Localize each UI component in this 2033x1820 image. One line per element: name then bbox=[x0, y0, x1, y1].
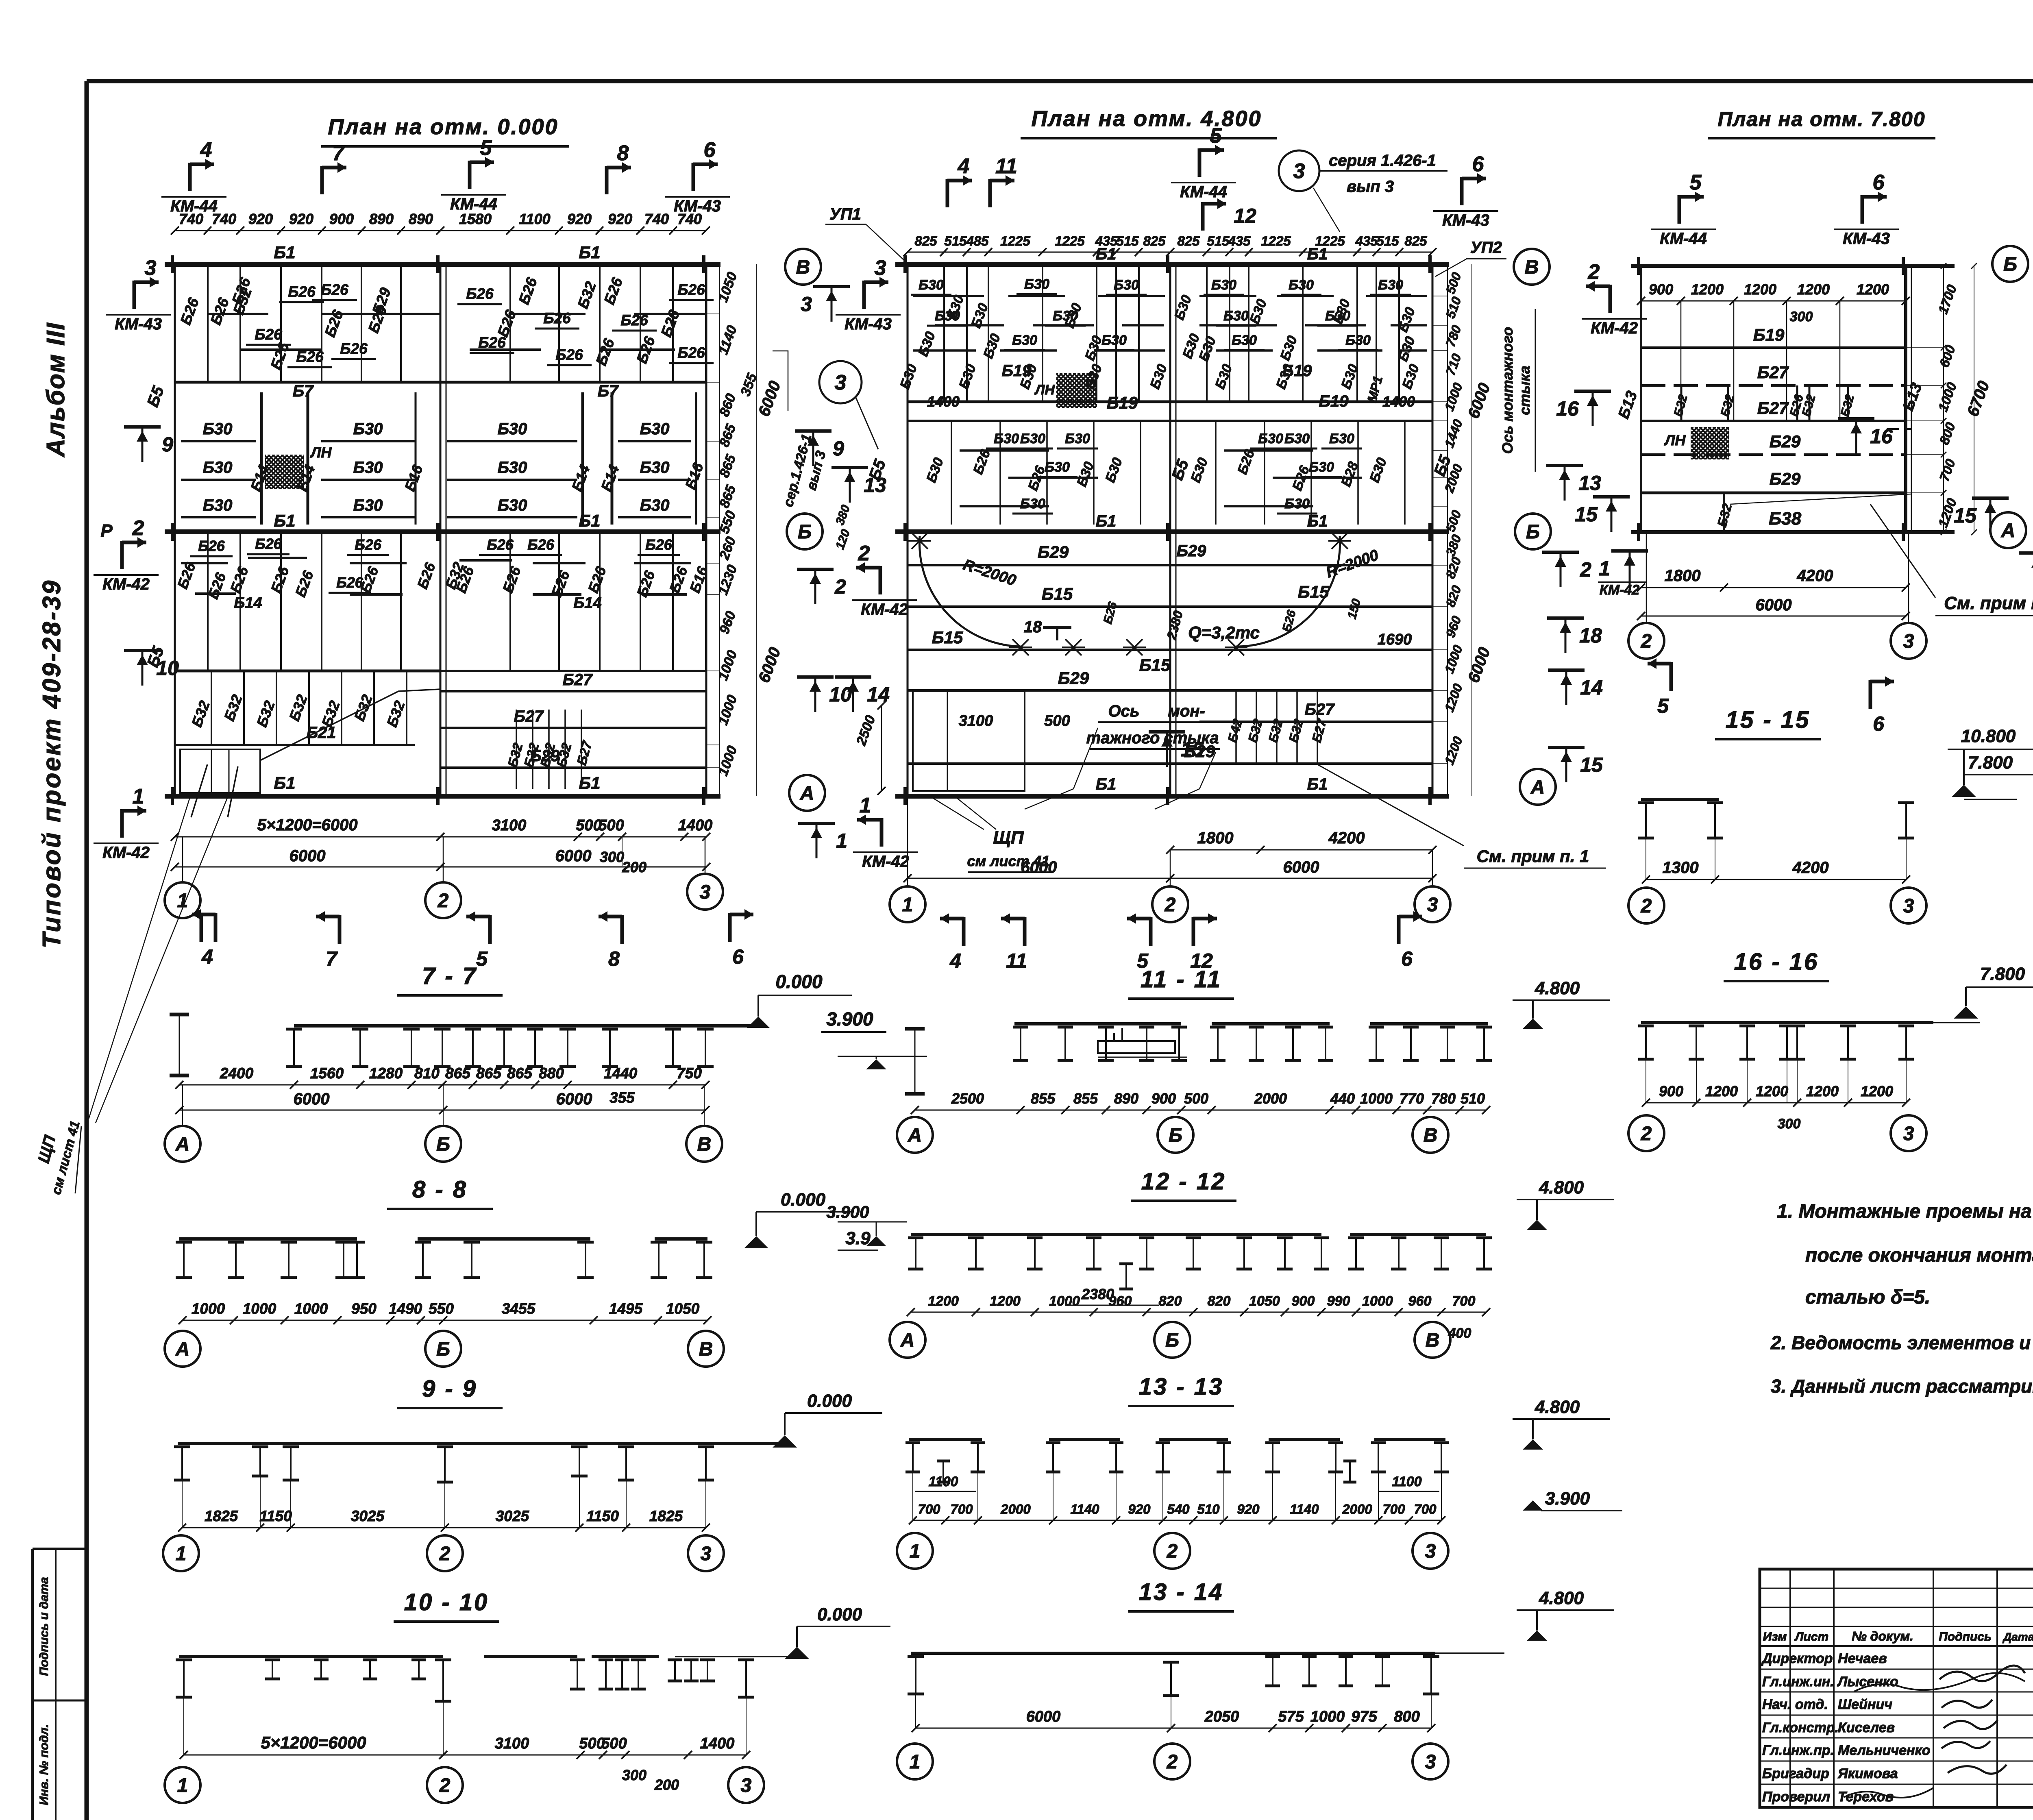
svg-text:13 - 14: 13 - 14 bbox=[1139, 1579, 1224, 1605]
section 8-8 beams bbox=[179, 1237, 357, 1241]
section 10-10 dims bbox=[184, 1755, 443, 1756]
plan2 main verticals bbox=[907, 264, 909, 796]
plan3 top dims bbox=[1641, 300, 1906, 302]
svg-text:13: 13 bbox=[1578, 472, 1601, 494]
svg-text:Б26: Б26 bbox=[255, 326, 282, 343]
svg-text:1000: 1000 bbox=[1049, 1293, 1080, 1309]
svg-text:Якимова: Якимова bbox=[1837, 1766, 1898, 1781]
svg-text:Б30: Б30 bbox=[1284, 496, 1310, 512]
svg-text:12: 12 bbox=[1234, 205, 1256, 227]
svg-text:Б: Б bbox=[1526, 521, 1540, 543]
svg-text:3: 3 bbox=[1425, 1541, 1436, 1562]
svg-text:3: 3 bbox=[700, 882, 711, 903]
svg-text:1050: 1050 bbox=[666, 1300, 700, 1317]
svg-text:11 - 11: 11 - 11 bbox=[1141, 966, 1222, 993]
svg-text:Б26: Б26 bbox=[478, 334, 506, 351]
svg-text:1: 1 bbox=[910, 1541, 921, 1562]
plan3 Б32 joists bbox=[1680, 385, 1683, 421]
svg-text:2400: 2400 bbox=[220, 1065, 254, 1082]
svg-text:после окончания монтажа заш: после окончания монтажа зашить рифленой bbox=[1805, 1245, 2033, 1266]
svg-text:Б1: Б1 bbox=[274, 243, 295, 262]
svg-text:Б19: Б19 bbox=[1107, 393, 1138, 412]
svg-text:Лист: Лист bbox=[1794, 1630, 1828, 1644]
reference bubble 3 with leader bbox=[819, 361, 862, 403]
svg-text:ЛН: ЛН bbox=[310, 444, 332, 461]
svg-text:Б29: Б29 bbox=[1058, 668, 1089, 688]
svg-text:2: 2 bbox=[1165, 894, 1176, 916]
sheet frame top border bbox=[87, 79, 2033, 83]
svg-text:КМ-42: КМ-42 bbox=[1591, 319, 1638, 337]
svg-text:920: 920 bbox=[248, 211, 273, 227]
section 9-9 joists bbox=[174, 1446, 190, 1448]
plan3 flags around bbox=[1609, 285, 1612, 313]
svg-text:7: 7 bbox=[333, 142, 345, 165]
svg-text:7: 7 bbox=[326, 947, 338, 970]
svg-text:Б: Б bbox=[798, 521, 812, 543]
svg-text:300: 300 bbox=[1790, 309, 1813, 324]
svg-text:Б: Б bbox=[436, 1134, 450, 1155]
svg-text:Альбом III: Альбом III bbox=[42, 322, 70, 457]
svg-text:Б14: Б14 bbox=[234, 594, 262, 612]
svg-text:1200: 1200 bbox=[990, 1293, 1021, 1309]
svg-text:15 - 15: 15 - 15 bbox=[1726, 707, 1811, 733]
plan1 middle strip Б30 rows bbox=[181, 440, 256, 442]
svg-text:Ось: Ось bbox=[1108, 702, 1139, 720]
svg-text:Б27: Б27 bbox=[1757, 363, 1789, 382]
svg-text:Б27: Б27 bbox=[514, 708, 544, 725]
svg-text:Б14: Б14 bbox=[573, 594, 601, 612]
svg-text:Б1: Б1 bbox=[1307, 245, 1328, 263]
svg-text:920: 920 bbox=[289, 211, 313, 227]
plan2 Б19 band bbox=[908, 401, 1170, 403]
svg-text:900: 900 bbox=[1659, 1083, 1683, 1099]
plan1 upper strip beam segments bbox=[207, 313, 268, 315]
svg-text:Изм: Изм bbox=[1763, 1630, 1787, 1644]
svg-text:Б30: Б30 bbox=[919, 277, 944, 293]
plan1 left cut flags bbox=[133, 281, 136, 309]
svg-text:Б1: Б1 bbox=[1096, 245, 1117, 263]
svg-text:900: 900 bbox=[1151, 1090, 1176, 1107]
plan1 lower bay Б26 beam segments bbox=[181, 562, 228, 564]
svg-text:Q=3,2тс: Q=3,2тс bbox=[1188, 623, 1260, 642]
svg-text:6000: 6000 bbox=[1021, 858, 1057, 876]
svg-text:2: 2 bbox=[1580, 558, 1591, 581]
svg-text:Б30: Б30 bbox=[1020, 431, 1045, 446]
svg-text:1150: 1150 bbox=[586, 1508, 619, 1524]
svg-text:920: 920 bbox=[1128, 1502, 1151, 1517]
svg-text:Б26: Б26 bbox=[527, 536, 555, 553]
svg-text:4.800: 4.800 bbox=[1539, 1178, 1584, 1197]
plan1 right dim stack column bbox=[719, 264, 720, 796]
section 13-13 bay frames bbox=[909, 1438, 982, 1441]
svg-text:900: 900 bbox=[1292, 1293, 1315, 1309]
svg-text:5×1200=6000: 5×1200=6000 bbox=[261, 1733, 366, 1752]
svg-text:Б30: Б30 bbox=[1325, 308, 1350, 324]
svg-text:1400: 1400 bbox=[678, 817, 713, 834]
section 10-10 beam line bbox=[179, 1655, 443, 1658]
svg-text:Б30: Б30 bbox=[1053, 308, 1078, 324]
svg-text:3: 3 bbox=[145, 256, 157, 280]
svg-text:Б26: Б26 bbox=[321, 281, 348, 298]
svg-text:1150: 1150 bbox=[259, 1508, 292, 1524]
svg-text:4.800: 4.800 bbox=[1539, 1588, 1584, 1608]
section 13-14 bubbles bbox=[897, 1744, 933, 1779]
svg-text:Б26: Б26 bbox=[198, 538, 225, 554]
svg-text:700: 700 bbox=[1414, 1502, 1437, 1517]
svg-text:В: В bbox=[796, 257, 810, 278]
plan3 axis lines bbox=[1631, 264, 1955, 268]
plan2 right axis bubbles bbox=[1514, 249, 1550, 285]
section 12-12 joists bbox=[908, 1237, 923, 1239]
svg-text:1825: 1825 bbox=[205, 1508, 239, 1524]
svg-text:Б26: Б26 bbox=[645, 536, 673, 553]
svg-text:18: 18 bbox=[1579, 624, 1602, 647]
svg-text:3: 3 bbox=[1903, 895, 1914, 917]
svg-text:1300: 1300 bbox=[1663, 859, 1699, 877]
svg-text:6000: 6000 bbox=[556, 1090, 592, 1108]
svg-text:Б: Б bbox=[2003, 254, 2017, 275]
section 11-11 bubbles bbox=[897, 1117, 933, 1153]
svg-text:11: 11 bbox=[1006, 949, 1027, 972]
svg-text:Б30: Б30 bbox=[1211, 277, 1236, 293]
svg-text:1: 1 bbox=[910, 1751, 921, 1773]
svg-text:990: 990 bbox=[1327, 1293, 1350, 1309]
svg-text:3: 3 bbox=[835, 371, 847, 394]
svg-text:КМ-42: КМ-42 bbox=[102, 844, 150, 862]
section 9-9 beam line bbox=[178, 1442, 785, 1445]
svg-text:825: 825 bbox=[1177, 233, 1200, 248]
svg-text:1. Монтажные проемы на отм.: 1. Монтажные проемы на отм. 4.800 , 7.80… bbox=[1777, 1201, 2033, 1222]
section 9-9 dims bbox=[182, 1527, 706, 1528]
svg-text:Б21: Б21 bbox=[307, 724, 336, 742]
plan1 axis line А bbox=[165, 794, 720, 799]
svg-text:См. прим п. 1: См. прим п. 1 bbox=[1477, 847, 1589, 866]
svg-text:КМ-44: КМ-44 bbox=[170, 197, 218, 215]
section 12-12 beams bbox=[911, 1233, 1321, 1236]
svg-text:890: 890 bbox=[409, 211, 433, 227]
svg-text:920: 920 bbox=[567, 211, 592, 227]
svg-text:Б1: Б1 bbox=[579, 511, 600, 530]
plan2 top dim row bbox=[908, 252, 1432, 253]
svg-text:Типовой проект 409-28-39: Типовой проект 409-28-39 bbox=[38, 579, 66, 949]
svg-text:3: 3 bbox=[1427, 894, 1438, 916]
svg-text:Б30: Б30 bbox=[498, 459, 527, 477]
section 16-16 beam line bbox=[1641, 1021, 1933, 1024]
svg-text:2000: 2000 bbox=[1342, 1502, 1372, 1517]
svg-text:Гл.инж.ин.: Гл.инж.ин. bbox=[1762, 1674, 1834, 1689]
svg-text:В: В bbox=[1424, 1125, 1438, 1146]
svg-text:1200: 1200 bbox=[1744, 281, 1776, 298]
title block signatures scribbles bbox=[1939, 1665, 2025, 1681]
svg-text:1100: 1100 bbox=[519, 211, 550, 227]
svg-text:В: В bbox=[699, 1339, 713, 1360]
plan3 beams lower bbox=[1641, 453, 1906, 456]
svg-text:440: 440 bbox=[1330, 1090, 1355, 1107]
svg-text:825: 825 bbox=[1143, 233, 1166, 248]
plan1 top cut flags 4 7 5 8 6 bbox=[188, 163, 192, 191]
svg-text:4200: 4200 bbox=[1328, 829, 1365, 847]
svg-text:вып 3: вып 3 bbox=[1347, 178, 1394, 196]
svg-text:ЩП: ЩП bbox=[993, 828, 1024, 848]
plan2 montage loop arcs R=2000 bbox=[919, 536, 1021, 647]
svg-text:Б30: Б30 bbox=[640, 496, 670, 514]
svg-text:3.900: 3.900 bbox=[826, 1202, 869, 1221]
svg-text:Б30: Б30 bbox=[1345, 333, 1371, 348]
svg-text:1225: 1225 bbox=[1055, 233, 1085, 248]
svg-text:7.800: 7.800 bbox=[1980, 964, 2025, 984]
svg-text:7.800: 7.800 bbox=[1968, 753, 2013, 773]
plan1 heavy joists Б14/Б16 middle strip bbox=[260, 392, 263, 525]
svg-text:740: 740 bbox=[644, 211, 669, 227]
svg-text:3: 3 bbox=[1903, 1123, 1914, 1145]
plan2 см.прим leader bbox=[1317, 764, 1464, 846]
svg-text:300: 300 bbox=[600, 849, 624, 865]
svg-text:Гл.констр.: Гл.констр. bbox=[1762, 1720, 1839, 1735]
svg-text:3: 3 bbox=[1425, 1751, 1436, 1773]
svg-text:9: 9 bbox=[833, 437, 844, 460]
svg-text:Б30: Б30 bbox=[1329, 431, 1354, 446]
svg-text:А: А bbox=[2001, 520, 2016, 542]
plan1 line mid lower bbox=[175, 670, 440, 673]
plan2 bottom cut flags bbox=[962, 917, 966, 946]
svg-text:Б30: Б30 bbox=[353, 420, 383, 438]
svg-text:Б30: Б30 bbox=[1232, 333, 1257, 348]
svg-text:1800: 1800 bbox=[1665, 567, 1701, 585]
svg-text:2050: 2050 bbox=[1204, 1708, 1239, 1725]
svg-text:10.800: 10.800 bbox=[1961, 726, 2016, 746]
svg-text:Б1: Б1 bbox=[1307, 512, 1328, 530]
svg-text:КМ-42: КМ-42 bbox=[1600, 582, 1639, 598]
plan2 dense top strip verticals bbox=[907, 264, 908, 402]
section 15-15 beams bbox=[1641, 798, 1719, 801]
svg-text:0.000: 0.000 bbox=[807, 1391, 852, 1411]
svg-text:500: 500 bbox=[601, 1735, 627, 1752]
svg-text:770: 770 bbox=[1400, 1090, 1424, 1107]
svg-text:Подпись: Подпись bbox=[1939, 1630, 1992, 1644]
svg-text:865: 865 bbox=[507, 1065, 533, 1082]
svg-text:Б30: Б30 bbox=[1045, 459, 1070, 475]
svg-text:2: 2 bbox=[1641, 895, 1652, 917]
svg-text:1490: 1490 bbox=[389, 1300, 422, 1317]
svg-text:15: 15 bbox=[1954, 504, 1977, 527]
svg-text:Б27: Б27 bbox=[563, 671, 593, 689]
section 12-12 bubbles bbox=[890, 1322, 925, 1358]
svg-text:1400: 1400 bbox=[927, 393, 960, 410]
svg-text:2: 2 bbox=[1641, 631, 1652, 652]
svg-text:0.000: 0.000 bbox=[817, 1604, 862, 1624]
section 15-15 dims bbox=[1646, 879, 1906, 880]
svg-text:3: 3 bbox=[1293, 159, 1305, 183]
plan2 lower small joists column bbox=[1235, 690, 1237, 764]
svg-text:10 - 10: 10 - 10 bbox=[404, 1589, 489, 1615]
svg-text:ЛН: ЛН bbox=[1664, 432, 1686, 448]
svg-text:1800: 1800 bbox=[1197, 829, 1234, 847]
svg-text:510: 510 bbox=[1461, 1090, 1485, 1107]
svg-text:Б1: Б1 bbox=[579, 773, 600, 792]
plan2 star junction marks bbox=[908, 533, 931, 549]
svg-text:515: 515 bbox=[944, 233, 967, 248]
svg-text:5×1200=6000: 5×1200=6000 bbox=[257, 816, 358, 834]
svg-text:Б30: Б30 bbox=[640, 459, 670, 477]
plan1 leader from opening bbox=[191, 764, 207, 817]
svg-text:Б: Б bbox=[1165, 1330, 1179, 1351]
svg-text:435: 435 bbox=[1228, 233, 1251, 248]
svg-text:КМ-42: КМ-42 bbox=[861, 601, 908, 618]
plan3 beams bbox=[1641, 346, 1906, 349]
plan2 serie bubble annotation bbox=[1279, 150, 1319, 191]
plan3 right dim stack bbox=[1943, 266, 1944, 532]
svg-text:Б29: Б29 bbox=[1038, 542, 1069, 562]
svg-text:700: 700 bbox=[918, 1502, 940, 1517]
section 13-14 beam line bbox=[911, 1652, 1435, 1655]
svg-text:ЛН: ЛН bbox=[1034, 382, 1055, 398]
section 11-11 crane symbol bbox=[1098, 1041, 1175, 1053]
svg-text:Б26: Б26 bbox=[255, 536, 282, 552]
svg-text:Б19: Б19 bbox=[1282, 362, 1313, 380]
plan3 bottom dims bbox=[1641, 587, 1906, 588]
svg-text:Б1: Б1 bbox=[1096, 775, 1117, 793]
svg-text:6000: 6000 bbox=[555, 847, 592, 865]
svg-text:А: А bbox=[800, 783, 814, 804]
svg-text:3025: 3025 bbox=[351, 1508, 385, 1524]
svg-text:4: 4 bbox=[201, 945, 213, 968]
plan3 inner verticals bbox=[1680, 301, 1682, 421]
svg-text:КМ-44: КМ-44 bbox=[1180, 183, 1227, 201]
svg-text:В: В bbox=[1525, 257, 1539, 278]
svg-text:1: 1 bbox=[1599, 557, 1610, 580]
svg-text:4200: 4200 bbox=[1792, 859, 1829, 877]
section 16-16 bubbles bbox=[1628, 1115, 1664, 1151]
svg-text:1050: 1050 bbox=[1249, 1293, 1280, 1309]
svg-text:Б26: Б26 bbox=[555, 346, 583, 363]
svg-text:Мельниченко: Мельниченко bbox=[1838, 1743, 1931, 1758]
svg-text:Б19: Б19 bbox=[1002, 362, 1032, 380]
svg-text:865: 865 bbox=[445, 1065, 471, 1082]
svg-text:5: 5 bbox=[1657, 694, 1669, 717]
svg-text:515: 515 bbox=[1207, 233, 1230, 248]
svg-text:6000: 6000 bbox=[1283, 858, 1319, 876]
svg-text:стыка: стыка bbox=[1516, 366, 1533, 415]
svg-text:Б26: Б26 bbox=[296, 348, 324, 365]
svg-text:700: 700 bbox=[1382, 1502, 1405, 1517]
svg-text:1400: 1400 bbox=[1382, 393, 1415, 410]
svg-text:3. Данный лист рассматривать: 3. Данный лист рассматривать совместно с… bbox=[1771, 1376, 2033, 1397]
svg-text:13 - 13: 13 - 13 bbox=[1139, 1374, 1224, 1400]
svg-text:Гл.инж.пр.: Гл.инж.пр. bbox=[1762, 1743, 1834, 1758]
plan3 axis bubbles bbox=[1992, 246, 2028, 282]
svg-text:5: 5 bbox=[476, 947, 488, 970]
plan2 top strip beams 3 rows bbox=[913, 295, 984, 297]
svg-text:А: А bbox=[175, 1339, 190, 1360]
svg-text:Б30: Б30 bbox=[994, 431, 1019, 446]
plan1 vertical joists upper strip bbox=[174, 264, 176, 382]
flags between plan1 and plan2 bbox=[813, 285, 850, 288]
svg-text:15: 15 bbox=[1181, 738, 1204, 761]
svg-text:Б27: Б27 bbox=[1757, 398, 1789, 418]
section 13-14 dims bbox=[916, 1728, 1431, 1729]
svg-text:Б15: Б15 bbox=[1139, 655, 1171, 675]
svg-text:1200: 1200 bbox=[1756, 1083, 1788, 1099]
title block top small rows bbox=[1760, 1588, 2033, 1589]
svg-text:Б30: Б30 bbox=[1223, 308, 1249, 324]
svg-text:План на отм. 7.800: План на отм. 7.800 bbox=[1717, 108, 1925, 131]
plan2 lower bay horizontal beams bbox=[908, 564, 1432, 566]
svg-text:485: 485 bbox=[966, 233, 989, 248]
svg-text:Б26: Б26 bbox=[677, 281, 705, 298]
svg-text:1690: 1690 bbox=[1378, 631, 1412, 648]
svg-text:Нечаев: Нечаев bbox=[1838, 1651, 1887, 1666]
svg-text:880: 880 bbox=[539, 1065, 564, 1082]
svg-text:6: 6 bbox=[1472, 152, 1484, 176]
svg-text:8 - 8: 8 - 8 bbox=[412, 1176, 468, 1203]
svg-text:890: 890 bbox=[1114, 1090, 1138, 1107]
section 13-13 dims bbox=[913, 1520, 1441, 1521]
svg-text:8: 8 bbox=[608, 947, 620, 970]
svg-text:Б30: Б30 bbox=[1258, 431, 1283, 446]
svg-text:0.000: 0.000 bbox=[781, 1190, 826, 1210]
svg-text:Б30: Б30 bbox=[640, 420, 670, 438]
plan1 small verticals right lower bbox=[516, 710, 517, 789]
svg-text:1000: 1000 bbox=[1362, 1293, 1393, 1309]
svg-text:1100: 1100 bbox=[928, 1474, 958, 1489]
plan2 axis lines В Б А bbox=[895, 262, 1449, 267]
svg-text:Б26: Б26 bbox=[620, 312, 648, 329]
svg-text:1: 1 bbox=[836, 829, 847, 852]
svg-text:Киселев: Киселев bbox=[1838, 1720, 1895, 1735]
svg-text:1200: 1200 bbox=[1857, 281, 1889, 298]
svg-text:КМ-43: КМ-43 bbox=[115, 315, 162, 333]
section 16-16 joists bbox=[1638, 1025, 1654, 1028]
svg-text:Б19: Б19 bbox=[1753, 325, 1785, 344]
plan1 bottom cut flags bbox=[214, 913, 218, 942]
svg-text:6000: 6000 bbox=[1026, 1708, 1061, 1725]
plan1 right axis bubbles В Б А bbox=[785, 249, 821, 285]
svg-text:14: 14 bbox=[867, 683, 890, 706]
svg-text:А: А bbox=[908, 1125, 922, 1146]
svg-text:4200: 4200 bbox=[1797, 567, 1833, 585]
svg-text:КМ-43: КМ-43 bbox=[674, 197, 721, 215]
title block staff rows bbox=[1760, 1669, 2033, 1670]
section 10-10 joists bbox=[176, 1659, 192, 1661]
svg-text:А: А bbox=[1530, 777, 1545, 798]
svg-text:575: 575 bbox=[1278, 1708, 1304, 1725]
svg-text:Б30: Б30 bbox=[203, 496, 233, 514]
svg-text:Б1: Б1 bbox=[1096, 512, 1117, 530]
svg-text:Р: Р bbox=[100, 521, 113, 541]
svg-text:Б30: Б30 bbox=[1024, 276, 1049, 292]
svg-text:1825: 1825 bbox=[649, 1508, 683, 1524]
section 8-8 dims bbox=[183, 1320, 707, 1321]
svg-text:3100: 3100 bbox=[492, 817, 527, 834]
svg-text:Б29: Б29 bbox=[1770, 469, 1801, 488]
svg-text:Бригадир: Бригадир bbox=[1762, 1766, 1829, 1781]
svg-text:920: 920 bbox=[608, 211, 632, 227]
svg-text:Б30: Б30 bbox=[1289, 277, 1314, 293]
svg-text:Б1: Б1 bbox=[274, 773, 295, 792]
svg-text:820: 820 bbox=[1159, 1293, 1182, 1309]
svg-text:9 - 9: 9 - 9 bbox=[422, 1376, 477, 1402]
svg-text:Б30: Б30 bbox=[1378, 277, 1403, 293]
svg-text:Б30: Б30 bbox=[498, 420, 527, 438]
svg-text:1200: 1200 bbox=[928, 1293, 959, 1309]
svg-text:Б: Б bbox=[436, 1339, 450, 1360]
svg-text:510: 510 bbox=[1197, 1502, 1220, 1517]
section 7-7 beam line bbox=[294, 1024, 756, 1028]
section 7-7 bubbles bbox=[165, 1126, 200, 1162]
svg-text:2: 2 bbox=[858, 542, 870, 565]
svg-text:3100: 3100 bbox=[495, 1735, 529, 1752]
svg-text:Б30: Б30 bbox=[1309, 459, 1334, 475]
